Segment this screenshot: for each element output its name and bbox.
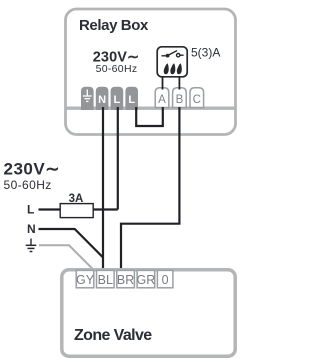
svg-text:B: B [176,94,184,106]
svg-text:50-60Hz: 50-60Hz [4,178,52,192]
zone valve enclosure [62,270,235,356]
terminal N (relay) [96,87,109,110]
terminal GR (zone valve) [137,270,156,287]
label L (supply) [27,203,34,217]
fuse F1 3A [60,204,93,218]
svg-text:L: L [27,203,34,217]
label supply 50-60Hz [4,178,52,192]
svg-text:50-60Hz: 50-60Hz [96,63,138,75]
label Relay Box [79,17,149,34]
wire supply L to fuse to relay L1 [39,208,118,210]
svg-text:5(3)A: 5(3)A [191,46,220,60]
svg-text:N: N [98,94,106,106]
svg-text:Zone Valve: Zone Valve [74,327,152,344]
svg-text:L: L [114,94,121,106]
label 3A [69,193,84,205]
relay box enclosure [66,9,236,135]
terminal L1 (relay) [111,87,124,110]
label N (supply) [27,222,36,236]
switch/heating icon U1 [157,47,187,77]
svg-text:230V∼: 230V∼ [4,160,60,179]
svg-text:C: C [193,94,201,106]
ground symbol [26,239,37,252]
terminal GY (zone valve) [76,270,95,287]
svg-text:3A: 3A [69,193,84,205]
wire icon leg to B [178,77,180,90]
svg-text:Relay Box: Relay Box [79,17,149,34]
terminal C (relay) [190,88,204,108]
label 230V~ (relay box rating) [93,50,140,66]
svg-text:BR: BR [117,273,134,287]
terminal L2 (relay) [125,87,138,110]
terminal 0 (zone valve) [157,270,173,287]
terminal B (relay) [173,88,187,108]
wire icon leg to A [162,77,164,90]
label 5(3)A [191,46,220,60]
label 50-60Hz (relay box rating) [96,63,138,75]
wire jumper relay L2 to terminal A [136,107,163,126]
wire supply N diagonal to zone valve BL [39,229,104,258]
svg-text:GY: GY [76,273,95,287]
wire terminal B down-left to zone valve BR [121,107,179,270]
svg-text:0: 0 [162,273,169,287]
wire relay N down to zone valve BL [102,107,104,270]
svg-text:BL: BL [98,273,113,287]
svg-text:GR: GR [137,273,156,287]
label supply 230V~ [4,160,60,179]
terminal BR (zone valve) [117,270,135,287]
svg-text:L: L [128,94,135,106]
terminal BL (zone valve) [97,270,115,287]
relay box terminal shelf line [65,106,237,109]
wire earth (grey) to zone valve GY [39,245,93,269]
label Zone Valve [74,327,152,344]
terminal earth (relay) [81,87,94,110]
svg-text:N: N [27,222,36,236]
terminal A (relay) [155,88,169,108]
wire relay L1 down to supply L line [117,107,119,210]
svg-text:A: A [158,94,166,106]
